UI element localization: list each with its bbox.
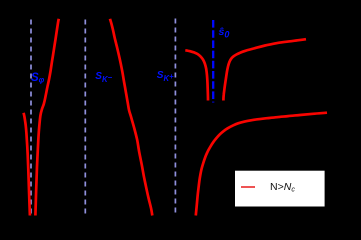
label s_0 hat [219,27,230,41]
red curve branch 2 (rising to top) [35,19,58,216]
red curve branch 5a (upper right dip, left side) [185,50,208,100]
label S_K+ [157,71,174,84]
red curve branch 3 (descending from top) [110,19,152,216]
red curve branch 1 (left of first pole) [24,113,30,216]
red curve branch 4 (lower right, rising then flattening) [196,113,327,216]
legend box [235,171,325,207]
label S_phi [31,73,43,86]
dashed line s_K+ [174,19,176,216]
dashed line s_0 hat [212,20,214,103]
label S_K- [95,72,112,85]
dashed line s_phi [30,20,32,216]
red curve branch 5b (upper right dip right side + rising tail) [223,39,306,100]
legend red line [241,186,255,188]
legend text N>Nc [270,182,295,196]
dashed line s_K- [84,20,86,216]
